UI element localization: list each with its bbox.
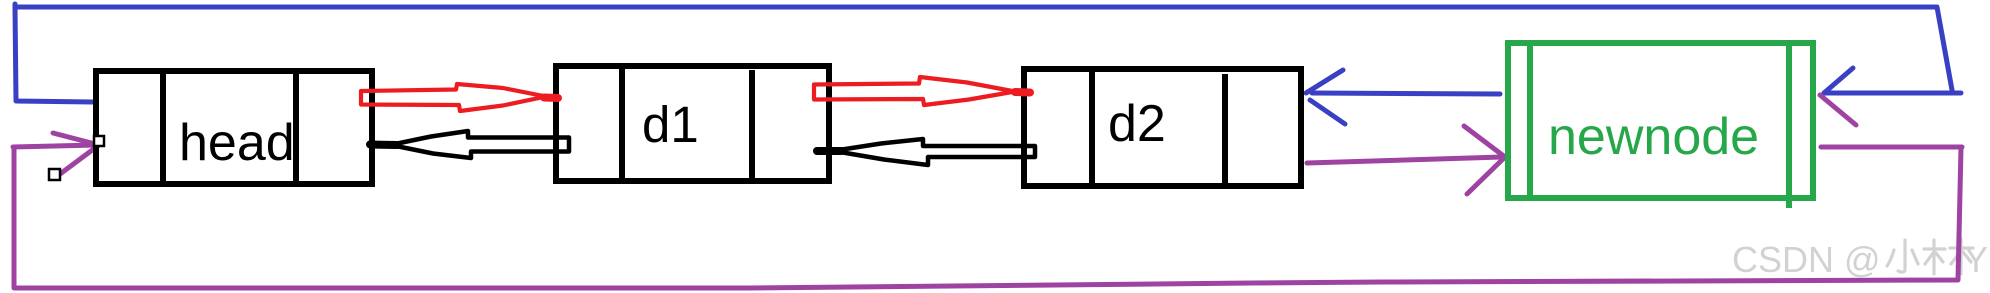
svg-text:d1: d1 [642,96,699,153]
svg-text:Y: Y [1964,239,1988,280]
svg-text:d2: d2 [1108,95,1166,153]
svg-text:CSDN @: CSDN @ [1732,239,1881,280]
svg-text:newnode: newnode [1548,108,1759,166]
svg-text:head: head [179,114,295,172]
